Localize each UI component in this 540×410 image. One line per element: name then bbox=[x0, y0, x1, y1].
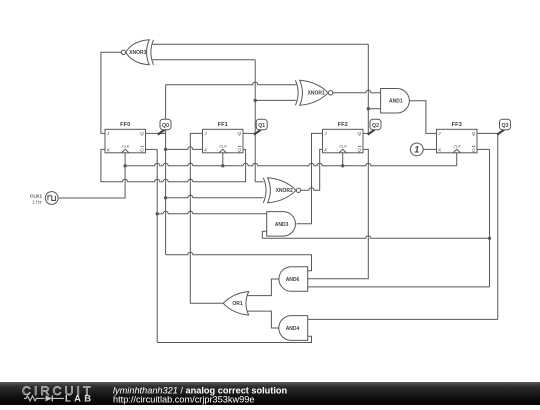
junction Q0 / FF1 K branch bbox=[164, 148, 167, 151]
wire FF0 Qbar to AND3 input A (row D) bbox=[157, 211, 267, 214]
svg-text:Q: Q bbox=[472, 147, 476, 152]
svg-text:CLK1: CLK1 bbox=[30, 193, 42, 198]
junction FF2 CLK / row A bbox=[341, 164, 344, 167]
wire OR1 output to FF1 J input bbox=[190, 133, 223, 303]
wire FF1 CLK stub bbox=[222, 153, 224, 166]
wire Q2 to XNOR3 input A bbox=[153, 43, 369, 45]
flip-flop FF2 bbox=[323, 122, 364, 153]
svg-text:FF3: FF3 bbox=[452, 122, 463, 128]
svg-text:CLK: CLK bbox=[339, 143, 347, 148]
wire FF1 Q output to Q1 node bbox=[243, 132, 255, 134]
constant 1 source bbox=[410, 143, 423, 156]
svg-text:CLK: CLK bbox=[219, 143, 227, 148]
junction Q1 / XNOR1 input B branch bbox=[254, 99, 257, 102]
wire Q3 to AND4 input 1 (row H) bbox=[308, 318, 498, 320]
svg-text:FF1: FF1 bbox=[218, 122, 229, 128]
svg-text:Q2: Q2 bbox=[372, 123, 379, 129]
svg-text:Q: Q bbox=[472, 131, 476, 136]
gate AND4 (mirrored, output left) bbox=[279, 316, 308, 341]
wire FF2 Qbar to AND6 input 2 bbox=[308, 149, 369, 278]
wire AND1 output to FF3 J input bbox=[409, 101, 436, 134]
svg-text:Q1: Q1 bbox=[258, 123, 265, 129]
junction FF0 Qbar / row D branch bbox=[156, 212, 159, 215]
wire FF3 Q output to Q3 node bbox=[477, 132, 498, 134]
svg-text:1 Hz: 1 Hz bbox=[32, 200, 42, 205]
gate XNOR3 (mirrored, output left) bbox=[121, 40, 153, 65]
wire FF0 Qbar to AND4 input 2 (row I) bbox=[157, 336, 311, 342]
wire AND4 output to OR1 input 2 bbox=[247, 311, 279, 328]
svg-text:FF2: FF2 bbox=[338, 122, 348, 128]
wire FF3 CLK stub bbox=[456, 153, 458, 166]
svg-text:Q: Q bbox=[238, 147, 242, 152]
svg-text:Q: Q bbox=[358, 147, 362, 152]
wire FF2 CLK stub bbox=[342, 153, 344, 166]
footer bar bbox=[0, 382, 540, 405]
wire Q1 to XNOR1 input B bbox=[255, 99, 296, 101]
node Q2 flag bbox=[368, 119, 381, 134]
svg-text:Q3: Q3 bbox=[502, 123, 509, 129]
gate AND1 bbox=[381, 89, 410, 114]
wire XNOR2 output to FF2 K input bbox=[301, 149, 323, 190]
svg-text:XNOR2: XNOR2 bbox=[276, 188, 293, 194]
wire Q0 to XNOR1 input A bbox=[166, 82, 297, 85]
svg-text:Q: Q bbox=[238, 131, 242, 136]
wire Q0 to FF1 K input bbox=[166, 147, 203, 150]
clock source CLK1 bbox=[30, 192, 58, 205]
svg-text:XNOR1: XNOR1 bbox=[308, 91, 325, 97]
wire Q2 to AND1 input B bbox=[368, 108, 380, 110]
junction Q2 / AND1 input B branch bbox=[367, 107, 370, 110]
node Q3 flag bbox=[497, 119, 510, 134]
CircuitLab logo resistor-diode glyph bbox=[24, 396, 64, 401]
svg-text:AND1: AND1 bbox=[389, 99, 403, 105]
node Q1 flag bbox=[254, 119, 267, 134]
svg-text:LAB: LAB bbox=[65, 393, 91, 404]
wire FF0 Q output to Q0 node bbox=[146, 132, 166, 134]
node Q0 flag bbox=[158, 119, 171, 134]
svg-text:http://circuitlab.com/crjpr353: http://circuitlab.com/crjpr353kw99e bbox=[113, 394, 254, 404]
wire FF3 Qbar to AND3 input B (row E) bbox=[262, 231, 489, 238]
svg-text:Q0: Q0 bbox=[162, 123, 169, 129]
svg-text:CLK: CLK bbox=[122, 143, 130, 148]
svg-text:Q: Q bbox=[140, 147, 144, 152]
wire Q0 to XNOR2 input B (row C) bbox=[166, 195, 264, 198]
wire node Q0 vertical bbox=[165, 85, 167, 255]
svg-text:OR1: OR1 bbox=[232, 301, 243, 307]
wire FF3 Qbar to AND6 input 3 (row G) bbox=[308, 286, 490, 288]
svg-text:AND4: AND4 bbox=[286, 326, 300, 332]
wire FF3 Qbar vertical bbox=[477, 149, 490, 287]
wire AND6 output to OR1 input 1 bbox=[247, 279, 279, 296]
junction FF3 Qbar / row E branch bbox=[488, 237, 491, 240]
wire CLK1 to clock column bbox=[58, 153, 125, 198]
svg-text:XNOR3: XNOR3 bbox=[129, 50, 146, 56]
gate XNOR2 bbox=[263, 178, 300, 203]
gate AND6 (mirrored, output left) bbox=[279, 267, 308, 292]
flip-flop FF1 bbox=[203, 122, 244, 153]
wire Q1 to XNOR2 input A bbox=[255, 181, 263, 183]
svg-text:AND3: AND3 bbox=[275, 222, 289, 228]
wire FF1 Qbar to FF0 K (row B) bbox=[101, 149, 246, 181]
wire XNOR1 output to AND1 input A bbox=[333, 90, 381, 93]
wire XNOR3 output to FF0 J input bbox=[101, 52, 121, 133]
wire AND3 output to FF2 J input bbox=[297, 133, 323, 223]
gate XNOR1 bbox=[295, 80, 332, 105]
svg-text:1: 1 bbox=[414, 145, 419, 155]
svg-text:FF0: FF0 bbox=[120, 122, 130, 128]
wire node Q3 vertical bbox=[497, 133, 499, 319]
svg-text:AND6: AND6 bbox=[286, 277, 300, 283]
junction FF1 CLK / row A bbox=[221, 164, 224, 167]
wire node Q1 vertical bbox=[254, 60, 256, 182]
junction clock column / row A bbox=[123, 164, 126, 167]
wire FF0 Qbar vertical bbox=[146, 149, 158, 342]
gate OR1 (mirrored, output left) bbox=[223, 292, 249, 315]
wire clock row A distributing CLK to FF1 FF2 FF3 bbox=[125, 163, 457, 166]
wire FF2 Q output to Q2 node bbox=[363, 132, 368, 134]
wire Q1 to XNOR3 input B bbox=[153, 59, 256, 61]
flip-flop FF0 bbox=[105, 122, 146, 153]
wire node Q2 vertical bbox=[367, 44, 369, 133]
flip-flop FF3 bbox=[437, 122, 478, 153]
gate AND3 bbox=[267, 212, 296, 237]
wire constant 1 to FF3 K input bbox=[423, 148, 436, 150]
svg-text:Q: Q bbox=[140, 131, 144, 136]
svg-text:CLK: CLK bbox=[453, 143, 461, 148]
wire Q0 to AND6 input 1 (row F) bbox=[166, 252, 312, 271]
svg-text:Q: Q bbox=[358, 131, 362, 136]
junction Q0 / row C branch bbox=[164, 196, 167, 199]
